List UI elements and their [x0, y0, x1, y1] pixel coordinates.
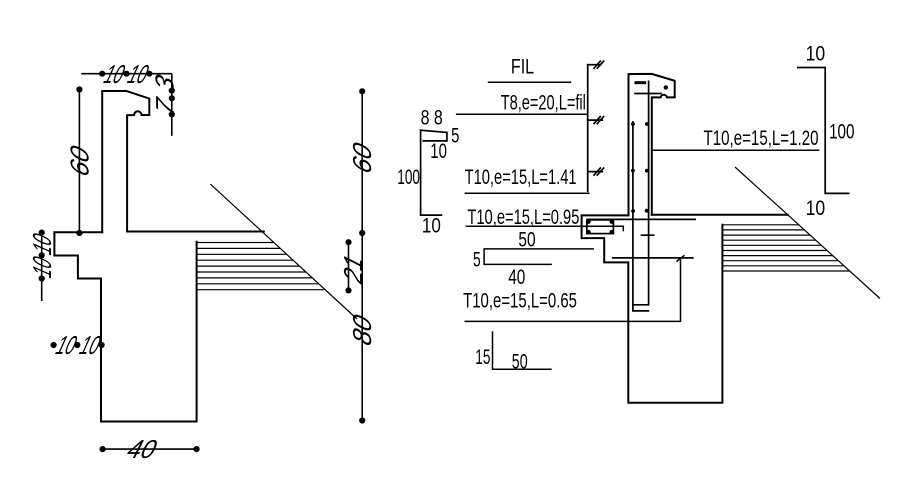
svg-text:100: 100: [397, 165, 420, 189]
svg-text:40: 40: [508, 265, 525, 289]
rebar vertical bar right in wall right view: [634, 81, 649, 304]
svg-text:10: 10: [430, 139, 447, 163]
slab top line left view: [127, 231, 264, 233]
svg-text:10: 10: [806, 41, 826, 65]
svg-text:5: 5: [451, 123, 459, 147]
dimension 10 10 far-left vertical left view: [28, 230, 57, 302]
svg-text:10: 10: [806, 196, 826, 220]
svg-text:T10,e=15,L=0.65: T10,e=15,L=0.65: [463, 289, 577, 313]
hatching right view: [722, 225, 849, 271]
svg-text:15: 15: [475, 345, 490, 369]
rebar cap anchor bar right view: [635, 81, 647, 84]
dimension 10 10 top left view: [81, 60, 172, 89]
rebar slab bottom bar right view: [613, 257, 693, 259]
svg-text:50: 50: [518, 227, 535, 251]
hatching left view: [197, 243, 326, 290]
svg-text:5: 5: [473, 248, 481, 272]
dimension 10 10 mid left view: [51, 331, 105, 360]
bar shape diagram right 10 100 10: [798, 68, 849, 194]
svg-text:100: 100: [829, 120, 854, 144]
bar shape diagram 15 50: [493, 331, 552, 369]
T8 distribution bar dots right view: [631, 122, 649, 213]
dimension 60 left view: [65, 86, 94, 236]
svg-text:T10,e=15,L=0.95: T10,e=15,L=0.95: [467, 205, 579, 229]
rebar slab top bar right view: [588, 218, 696, 220]
dimension 3 and 7 cap left view: [150, 71, 180, 136]
ledge and footing outline left view: [54, 232, 196, 421]
wall cap outline right view: [629, 74, 675, 216]
break diagonal left view: [210, 184, 357, 319]
svg-text:T10,e=15,L=1.20: T10,e=15,L=1.20: [704, 126, 819, 150]
ledge and footing outline right view: [582, 215, 723, 402]
svg-text:10: 10: [422, 214, 441, 238]
wall cap outline left view: [102, 91, 149, 232]
rebar cap horizontal right view: [635, 93, 661, 95]
break diagonal right view: [735, 167, 880, 299]
rebar cap dot right view: [664, 85, 668, 89]
rebar ledge loop right view: [587, 220, 614, 234]
svg-text:50: 50: [512, 349, 528, 373]
dimension column 60 21 80 middle: [339, 88, 377, 423]
rebar vertical bar left in wall right view: [633, 122, 649, 311]
rebar short bar end right view: [642, 234, 654, 236]
svg-text:T10,e=15,L=1.41: T10,e=15,L=1.41: [465, 165, 577, 189]
T8 vertical FIL bar line: [588, 61, 604, 191]
svg-text:8 8: 8 8: [421, 105, 443, 129]
bar shape diagram left 8 8 5 10 100 10: [421, 130, 447, 215]
svg-text:FIL: FIL: [511, 55, 534, 79]
slab top line right view: [652, 214, 788, 216]
dimension 40 bottom left view: [100, 435, 200, 464]
svg-text:T8,e=20,L=fil: T8,e=20,L=fil: [501, 91, 586, 115]
